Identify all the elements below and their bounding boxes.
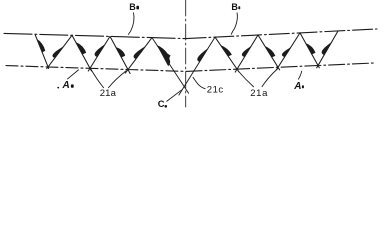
svg-text:21a: 21a xyxy=(100,88,117,99)
top chord line B2 (left half, dash-dot) xyxy=(4,33,186,38)
clip blob on peak7-valley6 wire xyxy=(306,43,316,55)
label C (bottom center-left) xyxy=(158,98,167,109)
label 21a (bottom left pair) xyxy=(100,88,117,99)
wire diagonal valley2-peak3 xyxy=(88,36,110,71)
vertical dash-dot centerline xyxy=(185,0,187,107)
svg-text:C: C xyxy=(158,98,165,109)
center V wire right leg (peak5 to center crossing, extended) xyxy=(179,37,215,95)
label 21a (bottom right pair) xyxy=(250,88,268,99)
label B1 (top right) xyxy=(231,2,240,12)
leader from left 21a to valley2 xyxy=(91,69,104,88)
wire diagonal valley1-peak2 xyxy=(47,35,72,68)
svg-text:A: A xyxy=(293,81,301,92)
clip blob on valley5-peak7 wire xyxy=(282,47,291,57)
leader from right 21a to valley4 xyxy=(238,71,254,88)
svg-text:21c: 21c xyxy=(207,84,224,95)
leader line from B2 to top chord xyxy=(128,13,134,35)
wire diagonal peak5-valley4 xyxy=(215,37,239,72)
wire diagonal peak7-valley6 xyxy=(300,33,319,68)
bottom chord line A1 (right half, dash-dot) xyxy=(186,63,374,71)
leader from 21c to center V xyxy=(193,77,206,89)
clip blob on valley1-peak2 wire xyxy=(53,46,64,58)
wire diagonal valley3-peak4 xyxy=(125,38,152,74)
label 21c (center) xyxy=(207,84,224,95)
leader line from C to center V vertex xyxy=(167,90,182,102)
wire diagonal peak2-valley2 xyxy=(72,35,91,71)
label A1 (bottom right) xyxy=(293,81,304,92)
label A2 (bottom left) xyxy=(57,80,73,91)
wire diagonal peak6-valley5 xyxy=(258,35,280,70)
bottom chord line A2 (left half, dash-dot) xyxy=(6,66,186,72)
clip blob on peak6-valley5 wire xyxy=(265,46,276,58)
wire diagonal peak1-valley1 xyxy=(35,34,49,68)
wire diagonal peak3-valley3 xyxy=(110,36,130,73)
leader from right 21a to valley5 xyxy=(262,69,278,88)
clip blob on valley4-peak6 wire xyxy=(242,46,251,57)
label B2 (top left) xyxy=(129,2,139,12)
clip blob on valley2-peak3 wire xyxy=(95,44,106,57)
svg-text:B: B xyxy=(231,2,238,12)
wire diagonal valley6-peak8 xyxy=(317,31,338,68)
leader from left 21a to valley3 xyxy=(108,71,126,89)
clip blob on center V left leg xyxy=(157,45,171,66)
clip blob on valley3-peak4 wire xyxy=(134,46,146,59)
clip blob on peak2-valley2 wire xyxy=(76,42,87,55)
leader line from B1 to top chord xyxy=(231,13,237,35)
clip blob on peak1-valley1 wire xyxy=(37,39,45,53)
svg-text:21a: 21a xyxy=(250,88,268,99)
svg-text:B: B xyxy=(129,2,136,12)
wire diagonal valley5-peak7 xyxy=(276,33,300,70)
center V wire left leg (peak4 to center crossing, extended) xyxy=(152,38,189,94)
top chord line B1 (right half, dash-dot) xyxy=(186,29,377,39)
clip blob on center V right leg xyxy=(197,48,208,62)
wire diagonal valley4-peak6 xyxy=(235,35,258,72)
leader line from A1 to bottom chord xyxy=(298,71,302,80)
leader line from A2 to bottom chord xyxy=(67,70,79,80)
clip blob on valley6-peak8 wire xyxy=(322,42,332,55)
svg-text:A: A xyxy=(62,80,70,91)
clip blob on peak3-valley3 wire xyxy=(116,47,126,58)
clip blob on peak5-valley4 wire xyxy=(220,45,232,57)
